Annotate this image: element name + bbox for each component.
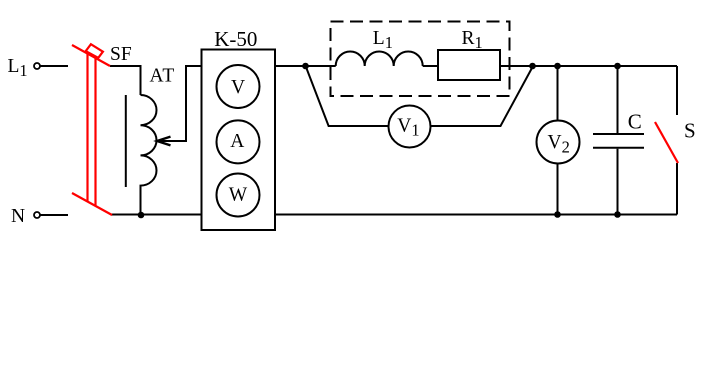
svg-text:S: S [684,118,696,142]
svg-text:W: W [229,184,248,205]
svg-text:V: V [231,77,245,98]
svg-text:C: C [628,109,642,133]
svg-text:SF: SF [110,44,132,65]
svg-text:N: N [11,206,25,227]
svg-text:K-50: K-50 [214,27,257,51]
svg-text:A: A [230,131,244,152]
svg-text:AT: AT [150,65,176,86]
